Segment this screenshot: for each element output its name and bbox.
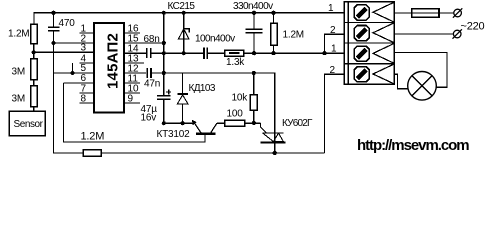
svg-text:1.2M: 1.2M xyxy=(283,30,304,41)
terminal screw 4 xyxy=(354,67,369,82)
pin 8 xyxy=(80,102,95,104)
node rail pin15 xyxy=(162,41,166,45)
svg-text:16v: 16v xyxy=(141,113,157,124)
terminal clamp zigzag 4 xyxy=(373,64,394,83)
capacitor 330n400v xyxy=(253,13,255,30)
resistor R1.2M top-left xyxy=(31,24,38,44)
svg-text:КУ602Г: КУ602Г xyxy=(282,118,313,129)
svg-text:2: 2 xyxy=(330,25,336,36)
terminal clamp zigzag 1 xyxy=(373,3,394,22)
svg-text:1: 1 xyxy=(331,44,337,55)
svg-text:100n400v: 100n400v xyxy=(195,34,235,45)
wire between 3M resistors xyxy=(33,80,35,86)
svg-text:Sensor: Sensor xyxy=(14,119,44,130)
fuse xyxy=(412,12,439,14)
diode KD103 xyxy=(182,73,184,94)
wire pin6 to transistor base xyxy=(64,83,206,142)
svg-text:1.2M: 1.2M xyxy=(8,29,29,40)
svg-text:КТ3102: КТ3102 xyxy=(157,129,191,140)
svg-text:47n: 47n xyxy=(144,79,160,90)
pin 7 xyxy=(80,92,95,94)
pin 16 xyxy=(124,32,140,34)
pin 13 xyxy=(124,62,144,64)
wire terminal4 drop to bottom rail xyxy=(325,74,345,153)
plus sign 47u xyxy=(166,91,171,93)
wire sensor net vertical xyxy=(54,31,84,153)
wire lamp loop from row3 xyxy=(394,53,447,88)
svg-text:1.2M: 1.2M xyxy=(81,131,105,143)
svg-text:3M: 3M xyxy=(12,67,26,78)
terminal block body xyxy=(344,2,394,85)
svg-text:145АП2: 145АП2 xyxy=(105,33,122,89)
wire pin4-pin5 bracket xyxy=(72,63,74,73)
terminal circle L1 xyxy=(454,9,462,17)
svg-text:КД103: КД103 xyxy=(189,83,216,94)
pin 12 wire xyxy=(124,72,146,74)
svg-text:1: 1 xyxy=(328,3,334,14)
pin 9 xyxy=(124,102,140,104)
transistor KT3102 xyxy=(193,121,201,133)
wire supply rail vertical x163.8 xyxy=(163,13,165,96)
pin 14 xyxy=(124,52,146,54)
pin 15 wire to rail xyxy=(124,42,164,44)
terminal clamp zigzag 2 xyxy=(373,23,394,42)
resistor 1.2M mid xyxy=(273,13,275,24)
wire 3M to sensor xyxy=(33,107,35,112)
lamp xyxy=(408,72,437,101)
svg-text:470: 470 xyxy=(59,18,76,29)
wire net53 horizontal xyxy=(164,52,204,54)
wire pin3 xyxy=(34,51,94,53)
wire pin2 xyxy=(54,42,95,44)
op IC U1 145AP2 body xyxy=(94,23,124,113)
capacitor 470 xyxy=(53,13,55,27)
resistor 1.3k xyxy=(225,50,244,56)
pin 1 xyxy=(80,32,95,34)
pin 10 xyxy=(124,92,140,94)
node pin2 xyxy=(51,41,55,45)
node top rail at 470 xyxy=(51,11,55,15)
svg-text:330n400v: 330n400v xyxy=(233,1,273,12)
pin 4 xyxy=(80,62,95,64)
node rail top xyxy=(162,11,166,15)
node pin4/pin5 junction xyxy=(70,71,74,75)
svg-text:2: 2 xyxy=(330,65,336,76)
node pin3 net left xyxy=(32,50,36,54)
svg-text:100: 100 xyxy=(227,109,244,120)
resistor 100 xyxy=(225,120,245,126)
capacitor 100n400v xyxy=(203,47,205,58)
wire emitter net y123 xyxy=(164,122,194,124)
svg-text:8: 8 xyxy=(81,93,87,104)
svg-text:68n: 68n xyxy=(144,34,160,45)
resistor 1.2M bottom xyxy=(83,150,101,157)
thyristor KU602G gate lead xyxy=(261,123,267,133)
wire fuse row xyxy=(394,12,412,14)
svg-text:КС215: КС215 xyxy=(168,1,196,12)
node rail net53 xyxy=(162,51,166,55)
svg-text:9: 9 xyxy=(128,93,134,104)
capacitor 68n xyxy=(146,48,148,58)
wire pin6 xyxy=(64,82,95,84)
capacitor 47u electrolytic xyxy=(157,95,171,97)
pin 11 xyxy=(124,82,140,84)
resistor 3M upper xyxy=(31,59,38,80)
zener KS215 xyxy=(183,13,185,53)
wire bottom rail xyxy=(101,152,324,154)
svg-text:1.3k: 1.3k xyxy=(226,57,245,68)
svg-text:http://msevm.com: http://msevm.com xyxy=(357,137,469,154)
wire pin5 xyxy=(54,72,95,74)
terminal screw 2 xyxy=(354,26,369,41)
wire terminal2 drop xyxy=(325,34,345,53)
wire top rail xyxy=(34,13,345,24)
svg-text:~220: ~220 xyxy=(461,21,485,33)
node rail pin12 net xyxy=(162,71,166,75)
terminal clamp zigzag 3 xyxy=(373,44,394,63)
svg-text:10k: 10k xyxy=(232,93,249,104)
sensor box xyxy=(9,111,45,136)
capacitor 47n xyxy=(146,68,148,78)
terminal screw 1 xyxy=(354,5,369,20)
wire pin12 net to thyristor anode xyxy=(164,73,275,153)
node thyristor cathode rail xyxy=(273,151,277,155)
wire 1.2M bottom to pin3 node xyxy=(33,44,35,59)
thyristor KU602G xyxy=(263,132,284,134)
resistor 10k xyxy=(253,73,255,95)
svg-text:3: 3 xyxy=(81,43,87,54)
wire lamp left from row4 xyxy=(394,74,408,89)
wire collector to gate xyxy=(217,122,261,124)
resistor 3M lower xyxy=(31,86,38,107)
svg-text:3M: 3M xyxy=(12,94,26,105)
terminal circle L2 xyxy=(453,30,461,38)
wire mains row2 xyxy=(394,33,453,35)
terminal screw 3 xyxy=(354,46,369,61)
